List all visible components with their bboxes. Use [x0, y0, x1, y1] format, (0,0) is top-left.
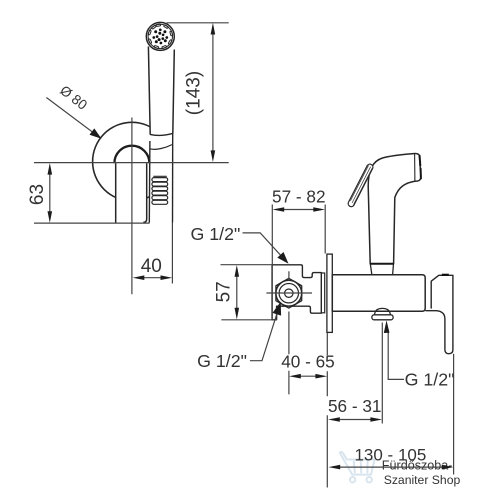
svg-text:40 - 65: 40 - 65 [281, 352, 335, 372]
svg-text:57: 57 [214, 281, 235, 302]
svg-text:Szaniter Shop: Szaniter Shop [384, 473, 461, 487]
svg-text:56 - 31: 56 - 31 [328, 396, 382, 416]
svg-text:40: 40 [141, 256, 162, 277]
svg-text:G 1/2": G 1/2" [191, 224, 241, 244]
svg-text:G 1/2": G 1/2" [197, 351, 247, 371]
svg-text:130 - 105: 130 - 105 [354, 446, 426, 465]
svg-text:(143): (143) [184, 71, 205, 115]
svg-text:G 1/2": G 1/2" [405, 369, 455, 389]
svg-text:57 - 82: 57 - 82 [272, 187, 326, 207]
svg-text:63: 63 [27, 184, 48, 205]
